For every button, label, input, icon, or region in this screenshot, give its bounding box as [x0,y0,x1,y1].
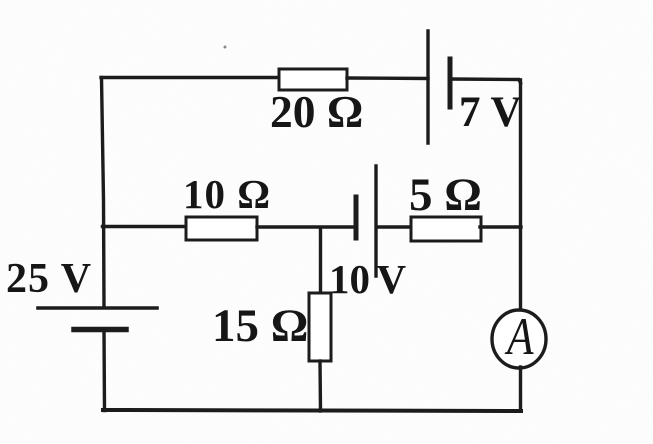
wire right edge lower [519,367,522,411]
wire below 15 ohm [318,361,322,411]
battery 7V short plate [448,59,453,107]
resistor 5 ohm [411,217,481,241]
battery 25V long plate [38,306,157,310]
wire branch down to 15 ohm [319,228,322,293]
wire middle between 10ohm and 10V battery [257,225,354,228]
battery 25V short plate [74,327,126,333]
wire right edge upper [519,80,522,312]
wire top-left horizontal [101,76,279,79]
wire left edge lower [102,330,106,411]
ammeter A [492,310,546,368]
svg-text:5 Ω: 5 Ω [409,169,482,221]
wire bottom [103,410,521,411]
wire middle right [480,225,521,228]
wire top between resistor and battery [347,76,428,80]
svg-text:25 V: 25 V [6,256,92,302]
svg-text:7 V: 7 V [459,89,522,136]
svg-text:15 Ω: 15 Ω [212,300,308,352]
svg-text:A: A [504,308,534,366]
wire top-right to corner [450,79,521,83]
resistor 10 ohm [186,217,257,240]
svg-text:20 Ω: 20 Ω [270,86,363,137]
wire between 10V battery and 5 ohm [377,225,414,228]
wire middle left [103,225,187,228]
resistor 20 ohm [279,69,347,90]
battery 10V short plate [354,197,359,238]
svg-text:10 V: 10 V [329,256,407,302]
svg-text:10 Ω: 10 Ω [183,171,271,217]
battery 7V long plate [426,31,429,143]
battery 10V long plate [374,166,377,276]
wire left edge upper [102,78,105,307]
resistor 15 ohm [309,293,331,361]
